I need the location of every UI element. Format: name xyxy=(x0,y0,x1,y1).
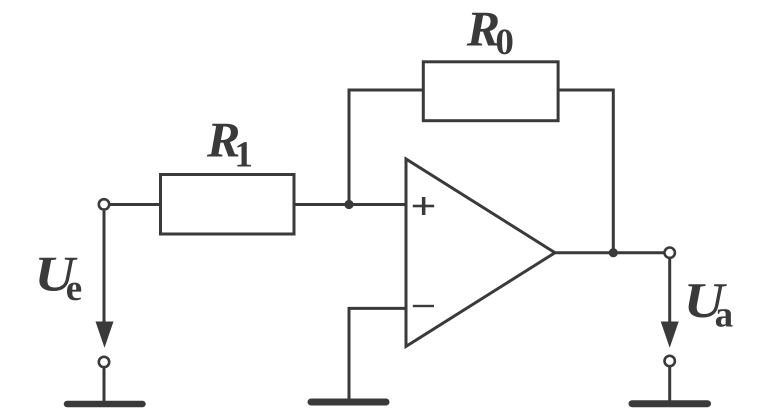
op-amp plus sign xyxy=(413,197,434,215)
svg-text:e: e xyxy=(66,268,82,309)
left lower terminal circle xyxy=(99,357,109,367)
output junction dot xyxy=(609,248,618,257)
node A junction dot xyxy=(344,200,353,209)
arrow Ua head xyxy=(661,322,679,348)
arrow Ue line xyxy=(103,211,106,330)
svg-text:0: 0 xyxy=(495,22,514,63)
wire input terminal to R1 xyxy=(104,203,162,206)
wire right circle to ground xyxy=(668,367,671,401)
ground left xyxy=(67,401,143,408)
arrow Ue head xyxy=(96,322,114,348)
ground middle xyxy=(311,399,386,406)
wire R0 right down to output node xyxy=(557,90,613,253)
output terminal circle xyxy=(665,248,675,258)
wire R1 to op-amp + input xyxy=(293,203,406,206)
svg-text:1: 1 xyxy=(234,135,253,176)
resistor R0 xyxy=(423,62,558,121)
wire op-amp minus input left and down to ground xyxy=(349,308,406,400)
resistor R1 xyxy=(161,175,295,235)
right lower terminal circle xyxy=(665,356,675,366)
ground right xyxy=(632,400,708,407)
svg-text:a: a xyxy=(715,295,734,336)
input terminal circle xyxy=(99,199,109,209)
arrow Ua line xyxy=(668,259,671,331)
op-amp minus sign xyxy=(413,305,434,307)
op-amp U1 xyxy=(406,159,555,346)
wire left circle to ground xyxy=(103,368,106,402)
wire op-amp output xyxy=(555,251,665,254)
wire node A up and right to R0 xyxy=(349,90,425,205)
